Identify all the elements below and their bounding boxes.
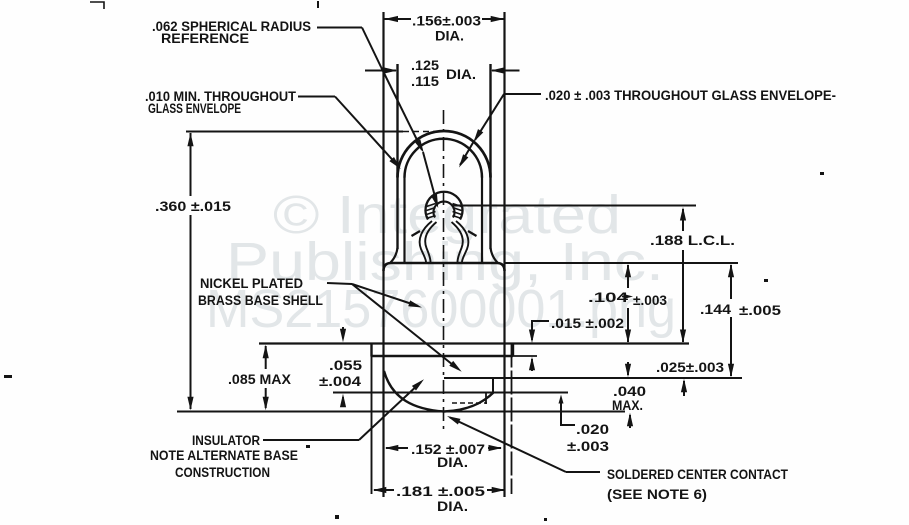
label .062 spherical radius	[152, 19, 311, 46]
svg-text:.020: .020	[576, 422, 609, 437]
leader insulator	[263, 379, 424, 440]
L.C.L. reference line	[452, 205, 696, 207]
svg-text:±.004: ±.004	[319, 374, 362, 389]
glass envelope inner dome	[405, 139, 483, 178]
lead wire right	[452, 221, 477, 262]
lead wire left	[412, 221, 437, 262]
dimension .152 +-.007 DIA.	[385, 442, 502, 470]
center contact step line	[444, 377, 742, 379]
filament coil outer arch	[426, 192, 463, 220]
insulator max reference line	[177, 411, 625, 413]
dimension .156 +-.003 DIA.	[385, 14, 505, 44]
svg-text:INSULATOR: INSULATOR	[192, 433, 260, 448]
svg-text:.115: .115	[411, 74, 440, 89]
dimension .188 L.C.L.	[650, 207, 735, 343]
svg-text:(SEE NOTE 6): (SEE NOTE 6)	[607, 487, 707, 502]
glass envelope inner left wall	[403, 177, 405, 262]
leader nickel plated (to shell)	[327, 283, 422, 308]
svg-text:REFERENCE: REFERENCE	[161, 31, 249, 46]
svg-text:CONSTRUCTION: CONSTRUCTION	[175, 465, 270, 480]
svg-text:.055: .055	[329, 358, 363, 373]
dimension .104 +-.003	[588, 264, 667, 343]
svg-text:SOLDERED CENTER CONTACT: SOLDERED CENTER CONTACT	[607, 467, 789, 482]
glass envelope outer dome	[398, 131, 491, 178]
svg-text:±.003: ±.003	[567, 439, 610, 454]
svg-text:.020 ± .003 THROUGHOUT GLASS E: .020 ± .003 THROUGHOUT GLASS ENVELOPE-	[545, 88, 836, 103]
svg-text:±.005: ±.005	[739, 303, 782, 318]
insulator bottom outline	[384, 371, 494, 412]
glass envelope outer right wall	[491, 64, 498, 263]
glass envelope outer left wall	[391, 64, 398, 263]
glass envelope inner right wall	[481, 177, 483, 262]
contact plane reference line	[333, 392, 568, 394]
filament coil inner arch	[433, 202, 454, 218]
dimension .360 +-.015	[155, 133, 232, 411]
center contact bottom dotted line	[452, 402, 487, 404]
leader .010 min	[298, 97, 401, 170]
leader .062 spherical radius	[317, 28, 381, 68]
flange bottom right extension	[513, 355, 537, 357]
base top right reference line	[505, 262, 739, 264]
svg-text:DIA.: DIA.	[435, 29, 464, 44]
svg-text:.015 ±.002: .015 ±.002	[551, 316, 624, 331]
leader nickel plated (to base bottom)	[352, 284, 462, 372]
label .010 min throughout glass envelope	[145, 89, 297, 116]
svg-text:BRASS BASE SHELL: BRASS BASE SHELL	[198, 293, 323, 308]
leader soldered center contact	[447, 416, 600, 472]
center contact step vertical	[492, 378, 494, 392]
glass height top reference line	[186, 131, 441, 133]
filament coil hatching	[427, 204, 462, 219]
svg-text:GLASS ENVELOPE: GLASS ENVELOPE	[148, 101, 241, 116]
flange right lower extension line (.181)	[511, 344, 513, 495]
svg-text:±.003: ±.003	[633, 293, 667, 308]
base shell top edge	[384, 263, 505, 271]
svg-text:NOTE ALTERNATE BASE: NOTE ALTERNATE BASE	[150, 448, 298, 463]
svg-text:.025±.003: .025±.003	[656, 360, 725, 375]
leader .020 glass	[459, 94, 541, 168]
dimension .085 max	[228, 345, 291, 410]
flange top reference line	[259, 342, 689, 344]
dimension .015 +-.002	[529, 316, 624, 371]
dimension .181 +-.005 DIA.	[373, 484, 505, 514]
label soldered center contact	[607, 467, 789, 502]
svg-text:.144: .144	[700, 302, 732, 317]
svg-text:.181 ±.005: .181 ±.005	[396, 484, 486, 499]
leader arrows to glass dome (left)	[381, 67, 438, 208]
svg-text:DIA.: DIA.	[437, 499, 468, 514]
svg-text:.085 MAX: .085 MAX	[228, 372, 291, 387]
label nickel plated brass base shell	[198, 276, 323, 308]
base shell left wall (extended extension line)	[382, 12, 384, 497]
svg-text:.360 ±.015: .360 ±.015	[155, 199, 232, 214]
base flange	[372, 344, 514, 357]
center contact lower step vertical	[485, 393, 487, 405]
svg-text:.104: .104	[588, 290, 629, 305]
dimension .040 max	[612, 362, 646, 428]
svg-text:.156±.003: .156±.003	[412, 14, 482, 29]
svg-text:MAX.: MAX.	[612, 398, 643, 413]
flange left lower extension line (.181)	[371, 356, 373, 494]
dimension .025 +-.003	[656, 360, 725, 396]
centerline	[443, 110, 445, 434]
base shell right wall (extended extension line)	[503, 12, 505, 497]
dimension .020 +-.003 (contact)	[559, 395, 610, 455]
svg-text:.125: .125	[411, 58, 440, 73]
dimension .125/.115 DIA.	[365, 58, 520, 89]
dimension .144 +-.005	[700, 264, 782, 378]
svg-text:.188 L.C.L.: .188 L.C.L.	[650, 233, 735, 248]
dimension .055 +-.004	[319, 327, 363, 407]
svg-text:DIA.: DIA.	[437, 455, 468, 470]
svg-text:NICKEL PLATED: NICKEL PLATED	[200, 276, 303, 291]
svg-text:DIA.: DIA.	[446, 67, 476, 82]
label insulator / note alternate base construction	[150, 433, 298, 480]
svg-text:.040: .040	[613, 384, 646, 399]
